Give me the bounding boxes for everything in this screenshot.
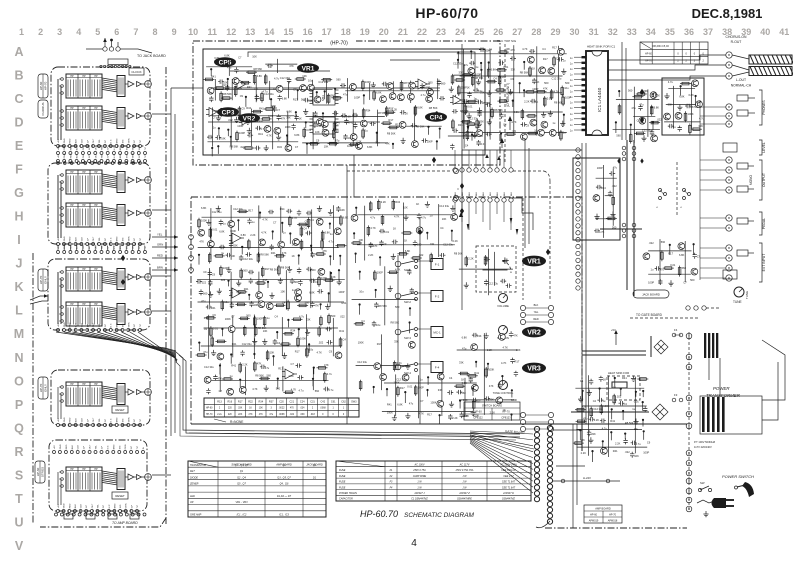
svg-text:CP8123: CP8123: [501, 416, 511, 420]
transistor Q3: [427, 89, 434, 96]
capacitor: [514, 371, 518, 377]
transistor: [678, 243, 685, 250]
svg-text:5-P: 5-P: [139, 146, 141, 150]
node: [470, 50, 472, 52]
wire: [231, 79, 233, 100]
transistor: [204, 377, 211, 384]
svg-text:P.T 100V 50/60HZ: P.T 100V 50/60HZ: [694, 440, 716, 444]
power rail H-24V: [553, 480, 620, 482]
svg-text:18: 18: [341, 27, 351, 37]
transistor Q2: [317, 119, 324, 126]
svg-text:HP: HP: [70, 75, 74, 78]
wire: [377, 110, 379, 147]
buffer: [128, 81, 134, 87]
svg-text:560: 560: [616, 133, 621, 137]
svg-text:10K: 10K: [259, 408, 264, 410]
svg-text:100K: 100K: [321, 276, 327, 280]
ground: [464, 282, 469, 288]
svg-text:10u: 10u: [309, 347, 314, 351]
node: [404, 391, 406, 393]
node: [295, 111, 297, 113]
transistor: [276, 85, 283, 92]
node: [320, 303, 322, 305]
svg-text:FET: FET: [190, 470, 195, 473]
switch SW-4: [395, 364, 401, 370]
svg-text:BLK: BLK: [76, 139, 78, 144]
capacitor: [668, 124, 674, 128]
svg-text:HP: HP: [82, 204, 86, 207]
capacitor: [313, 111, 317, 117]
svg-text:1K: 1K: [249, 408, 252, 410]
svg-text:+9V: +9V: [58, 245, 60, 249]
svg-text:(CHORUS UNIT): (CHORUS UNIT): [506, 83, 510, 107]
svg-text:R8 56K: R8 56K: [387, 132, 396, 136]
resistor: [639, 378, 646, 381]
svg-text:C4: C4: [305, 220, 309, 224]
ground: [388, 286, 393, 292]
ground: [264, 145, 269, 151]
svg-text:BLK: BLK: [476, 191, 478, 196]
node: [359, 303, 361, 305]
svg-text:HP-60.70: HP-60.70: [360, 509, 398, 519]
svg-text:R8 56K: R8 56K: [482, 101, 491, 105]
resistor: [242, 81, 249, 84]
resistor: [468, 100, 475, 103]
svg-text:BRN: BRN: [117, 322, 119, 327]
wire: [613, 128, 660, 130]
svg-text:BRN: BRN: [117, 138, 119, 143]
resistor: [650, 107, 653, 114]
svg-text:HP-70: HP-70: [39, 275, 43, 284]
ground: [477, 121, 482, 127]
function box MC-1: [431, 327, 443, 338]
transformer wires: [762, 340, 785, 400]
wire: [277, 59, 279, 73]
node: [353, 232, 355, 234]
svg-text:F4: F4: [674, 328, 678, 332]
svg-text:GND: GND: [64, 236, 66, 241]
node: [210, 68, 212, 70]
wire bundle: [102, 207, 117, 210]
node: [642, 390, 644, 392]
svg-text:1K: 1K: [292, 254, 295, 258]
ground: [449, 401, 454, 407]
svg-text:10u: 10u: [308, 79, 313, 83]
svg-text:47K: 47K: [324, 363, 329, 367]
ground: [508, 89, 513, 95]
wire: [395, 374, 397, 416]
svg-text:R17: R17: [295, 349, 300, 353]
svg-text:33K: 33K: [643, 89, 648, 93]
svg-text:R41: R41: [610, 419, 615, 423]
capacitor: [486, 103, 492, 107]
resistor: [285, 391, 292, 394]
node: [523, 61, 525, 63]
transistor: [675, 112, 682, 119]
svg-text:BRN: BRN: [117, 417, 119, 422]
arrow junction: [617, 158, 620, 163]
resistor: [403, 232, 410, 235]
arrow junction: [460, 183, 464, 189]
svg-text:R41: R41: [232, 342, 237, 346]
transistor: [539, 67, 546, 74]
svg-text:C12 33u: C12 33u: [233, 207, 243, 211]
arrow down: [467, 126, 470, 132]
svg-text:6.8K: 6.8K: [224, 54, 230, 58]
capacitor: [510, 358, 514, 364]
bottom jumper rects: [64, 514, 73, 519]
wire: [345, 90, 439, 92]
mono jacks: [737, 163, 748, 169]
svg-text:C12 33u: C12 33u: [488, 282, 498, 286]
svg-text:C9: C9: [526, 123, 530, 127]
svg-text:N.C: N.C: [107, 445, 109, 449]
svg-text:47u: 47u: [203, 350, 208, 354]
resistor: [210, 328, 213, 335]
ground: [305, 329, 310, 335]
transistor: [664, 113, 671, 120]
svg-text:10u: 10u: [634, 427, 639, 431]
capacitor: [343, 134, 347, 140]
svg-text:TO JACK BOARD: TO JACK BOARD: [137, 54, 166, 58]
wires in box: [57, 175, 59, 238]
terminal row: [57, 243, 60, 246]
resistor: [465, 258, 468, 265]
svg-text:6.8K: 6.8K: [397, 402, 403, 406]
node: [267, 281, 269, 283]
ground: [578, 396, 583, 402]
svg-text:OUT: OUT: [93, 138, 95, 143]
switch board box: [48, 163, 150, 244]
svg-text:100P: 100P: [257, 316, 263, 320]
svg-text:R8 56K: R8 56K: [454, 252, 463, 256]
svg-text:6.8K: 6.8K: [417, 106, 423, 110]
node: [217, 145, 219, 147]
resistor: [356, 323, 363, 326]
svg-text:VR1 - VR3: VR1 - VR3: [236, 501, 249, 504]
wires in box: [57, 79, 59, 140]
svg-text:BLK: BLK: [497, 191, 499, 196]
svg-text:4.7K: 4.7K: [599, 230, 605, 234]
svg-text:100K: 100K: [511, 398, 517, 402]
transistor: [593, 195, 600, 202]
svg-text:T-P: T-P: [137, 445, 139, 449]
arrow up: [485, 154, 489, 158]
wire bundle: [102, 271, 117, 274]
ground: [262, 339, 267, 345]
svg-text:47K: 47K: [510, 48, 515, 52]
wire: [202, 216, 340, 218]
arrow junction: [121, 255, 125, 261]
svg-text:560: 560: [336, 77, 341, 81]
svg-text:47K: 47K: [199, 240, 204, 244]
capacitor: [209, 96, 213, 102]
resistor: [458, 87, 461, 94]
op-amp IC2b: [242, 115, 251, 125]
svg-text:10u: 10u: [375, 141, 380, 145]
svg-text:POWER TRANS: POWER TRANS: [339, 492, 357, 495]
svg-text:C7: C7: [420, 399, 424, 403]
svg-text:SIG: SIG: [122, 237, 124, 241]
heavy rail: [581, 384, 583, 451]
resistor: [263, 318, 266, 325]
capacitor: [417, 213, 421, 219]
node: [409, 307, 411, 309]
capacitor: [270, 244, 274, 250]
node: [642, 401, 644, 403]
svg-text:10u: 10u: [238, 86, 243, 90]
svg-text:.022: .022: [228, 118, 234, 122]
svg-text:T-P: T-P: [145, 245, 147, 249]
3p connector lower: [520, 412, 525, 417]
svg-text:C31: C31: [310, 400, 315, 403]
transistor: [409, 342, 416, 349]
svg-text:6.8K: 6.8K: [405, 249, 411, 253]
capacitor: [332, 111, 338, 115]
driver IC: [117, 304, 125, 325]
ground: [217, 288, 222, 294]
svg-text:R17: R17: [543, 57, 548, 61]
mixer node: [145, 177, 152, 184]
transistor: [601, 448, 608, 455]
svg-text:5: 5: [95, 27, 100, 37]
svg-text:2: 2: [38, 27, 43, 37]
capacitor: [411, 123, 417, 127]
svg-text:HEAT SINK FOR IC1: HEAT SINK FOR IC1: [587, 45, 616, 49]
node: [599, 387, 601, 389]
svg-text:4.7K: 4.7K: [511, 120, 517, 124]
ground: [276, 134, 281, 140]
ground: [471, 410, 476, 416]
transistor: [639, 117, 646, 124]
capacitor: [685, 104, 691, 108]
resistor: [245, 147, 252, 150]
node: [523, 89, 525, 91]
wire bundle: [102, 306, 117, 309]
svg-text:30: 30: [569, 27, 579, 37]
transistor: [528, 56, 535, 63]
resistor: [665, 267, 672, 270]
arrow junction: [546, 249, 550, 255]
svg-text:+9V: +9V: [58, 139, 60, 143]
board label HP-60: [35, 461, 45, 483]
ground: [234, 117, 239, 123]
wire: [329, 271, 331, 306]
wire: [211, 89, 333, 91]
svg-text:.022: .022: [657, 118, 663, 122]
node: [211, 147, 213, 149]
gate ribbon: [189, 433, 534, 449]
resistor: [209, 229, 212, 236]
mixer node: [145, 81, 152, 88]
wire: [437, 78, 439, 99]
svg-text:5-P: 5-P: [139, 154, 141, 158]
svg-text:SIG: SIG: [126, 245, 128, 249]
svg-text:6.8K: 6.8K: [309, 291, 315, 295]
svg-text:R41: R41: [244, 287, 249, 291]
svg-text:HP-60/70: HP-60/70: [415, 5, 478, 21]
resistor: [636, 132, 643, 135]
feedback wire: [248, 52, 475, 88]
svg-text:.0022: .0022: [279, 408, 285, 410]
svg-text:HP-70: HP-70: [44, 81, 48, 90]
resistor: [234, 88, 237, 95]
node: [451, 230, 453, 232]
svg-text:4.7K: 4.7K: [370, 226, 376, 230]
mixer node: [145, 474, 152, 481]
wire: [334, 110, 336, 146]
bridge rectifier: [652, 404, 668, 420]
capacitor: [509, 331, 513, 337]
svg-text:28: 28: [531, 27, 541, 37]
wire: [483, 333, 485, 415]
svg-text:10K: 10K: [430, 242, 435, 246]
resistor: [484, 257, 487, 264]
wires in box: [57, 79, 59, 140]
resistor: [689, 125, 692, 132]
wire: [458, 92, 562, 94]
wire: [272, 106, 274, 149]
svg-text:47u: 47u: [639, 103, 644, 107]
svg-text:2.2K: 2.2K: [581, 451, 587, 455]
svg-text:560: 560: [682, 266, 687, 270]
HP-70 outer dashed box: [193, 41, 500, 165]
svg-text:SW3: SW3: [351, 400, 357, 403]
capacitor: [472, 333, 478, 337]
svg-text:GND: GND: [60, 444, 62, 449]
node: [651, 106, 653, 108]
svg-text:.022: .022: [649, 241, 655, 245]
capacitor: [306, 267, 312, 271]
svg-text:Q: Q: [14, 421, 24, 435]
node: [427, 376, 429, 378]
resistor: [393, 363, 396, 370]
terminal row: [57, 510, 60, 513]
terminal row: [57, 160, 60, 163]
wire: [253, 315, 255, 356]
svg-text:560: 560: [331, 314, 336, 318]
svg-text:10u: 10u: [463, 133, 468, 137]
capacitor: [255, 95, 259, 101]
capacitor: [650, 130, 654, 136]
svg-text:BLK: BLK: [76, 323, 78, 328]
svg-text:OUT: OUT: [93, 417, 95, 422]
ground: [588, 437, 593, 443]
op-amp U5: [232, 233, 241, 243]
HP-70 inner box: [203, 49, 485, 155]
resistor: [257, 254, 260, 261]
svg-text:C12 33u: C12 33u: [593, 407, 603, 411]
wire: [152, 209, 171, 211]
label VR2: [238, 113, 260, 123]
label VR1: [297, 63, 319, 73]
resistor: [287, 302, 290, 309]
svg-text:R41: R41: [474, 371, 479, 375]
svg-text:S: S: [15, 468, 23, 482]
terminal row: [53, 451, 56, 454]
resistor: [276, 304, 283, 307]
transformer frame: [700, 396, 762, 434]
ground: [317, 206, 322, 212]
svg-text:R: R: [14, 445, 23, 459]
resistor: [678, 268, 681, 275]
switch board small table: [464, 402, 520, 420]
svg-text:C9: C9: [316, 139, 320, 143]
transistor: [437, 400, 444, 407]
resistor: [289, 218, 292, 225]
wire: [152, 310, 171, 312]
connector rows left: [453, 168, 457, 172]
svg-text:560: 560: [395, 305, 400, 309]
svg-text:AC 100V: AC 100V: [413, 463, 424, 466]
resistor: [221, 302, 224, 309]
+B arrow: [614, 330, 618, 334]
resistor: [362, 110, 365, 117]
transistor: [316, 218, 323, 225]
wire: [459, 268, 513, 270]
svg-text:10K: 10K: [263, 329, 268, 333]
svg-text:CP5: CP5: [219, 59, 232, 66]
svg-text:BLK: BLK: [483, 191, 485, 196]
svg-text:100K: 100K: [201, 218, 207, 222]
resistor: [528, 115, 535, 118]
svg-text:4.7u: 4.7u: [328, 388, 334, 392]
capacitor: [392, 240, 398, 244]
svg-text:10K: 10K: [302, 74, 307, 78]
svg-text:100P: 100P: [427, 140, 433, 144]
transistor: [643, 253, 650, 260]
capacitor: [529, 49, 535, 53]
wire: [659, 239, 661, 284]
dash-dot wire from row1: [513, 170, 544, 172]
svg-text:C12 33u: C12 33u: [443, 242, 453, 246]
svg-text:5-P: 5-P: [134, 418, 136, 422]
label VR2 mid: [522, 327, 546, 338]
svg-text:BLK: BLK: [77, 245, 79, 250]
capacitor: [477, 100, 483, 104]
wire: [382, 410, 474, 412]
switch SW-2: [395, 293, 401, 299]
resistor: [527, 91, 534, 94]
svg-text:T-P: T-P: [145, 154, 147, 158]
svg-text:Q3 , Q5, Q7: Q3 , Q5, Q7: [277, 476, 291, 479]
svg-text:6.8K: 6.8K: [282, 97, 288, 101]
wire: [312, 112, 314, 149]
svg-text:CLK: CLK: [83, 245, 85, 250]
svg-text:560: 560: [690, 278, 695, 282]
transistor: [409, 82, 416, 89]
svg-text:BLK: BLK: [76, 237, 78, 242]
svg-text:HP: HP: [94, 383, 98, 386]
ground: [467, 113, 472, 119]
capacitor: [439, 96, 445, 100]
transistor: [558, 48, 565, 55]
capacitor: [479, 48, 485, 52]
node: [642, 419, 644, 421]
node: [289, 232, 291, 234]
ground: [487, 90, 492, 96]
arrow junction: [640, 89, 644, 95]
svg-text:10u: 10u: [359, 289, 364, 293]
capacitor: [234, 67, 238, 73]
resistor: [266, 108, 273, 111]
svg-text:HP-60: HP-60: [39, 81, 43, 90]
svg-text:R8 56K: R8 56K: [223, 92, 232, 96]
svg-text:SIG: SIG: [126, 154, 128, 158]
driver IC: [117, 76, 125, 97]
mixer node: [145, 210, 152, 217]
transistor: [266, 303, 273, 310]
